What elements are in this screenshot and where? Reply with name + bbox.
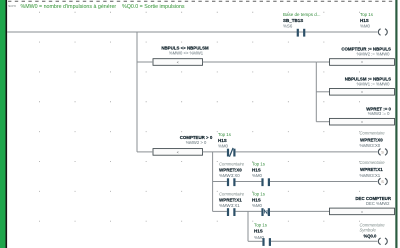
svg-text:=: = <box>361 61 363 65</box>
svg-text:Commentaire: Commentaire <box>360 160 386 165</box>
svg-text:Top 1s: Top 1s <box>360 12 374 17</box>
wire: main rung top rail <box>7 31 377 33</box>
svg-text:WPRET:X1: WPRET:X1 <box>360 167 383 172</box>
wire: rung C to DEC block <box>270 210 330 212</box>
svg-text:H1S: H1S <box>252 197 261 202</box>
wire: sub-branch vertical V3 <box>212 152 214 212</box>
compare block NBPULS <> NBPULSM <box>153 45 209 65</box>
wire: into compare block 2 <box>137 151 153 153</box>
svg-text:%MW0 <> %MW1: %MW0 <> %MW1 <box>169 50 204 55</box>
wire: left branch vertical <box>136 32 138 152</box>
svg-text:%MW2 := %MW0: %MW2 := %MW0 <box>357 52 391 57</box>
svg-text:H1S: H1S <box>254 229 263 234</box>
wire: stub to WPRET := 0 <box>316 121 329 123</box>
svg-text:%M0: %M0 <box>360 24 371 29</box>
svg-text:WPRET:X1: WPRET:X1 <box>219 197 242 202</box>
svg-text:Top 1s: Top 1s <box>254 222 268 227</box>
svg-text:Commentaire: Commentaire <box>219 191 245 196</box>
wire: rung D lead <box>248 240 262 242</box>
svg-text:%MW2 > 0: %MW2 > 0 <box>186 140 207 145</box>
svg-text:=: = <box>361 90 363 94</box>
wire: between contacts rung C <box>235 210 261 212</box>
svg-text:H1S: H1S <box>360 18 369 23</box>
contact SB_TB1S %S6 (base de temps 1s) <box>283 12 321 37</box>
wire: compare1 output to operate branch <box>203 61 317 63</box>
svg-text:<: < <box>177 150 179 154</box>
svg-text:=: = <box>361 210 363 214</box>
falling edge contact H1S %M0 rung C <box>252 191 270 216</box>
wire: into compare block 1 <box>137 61 153 63</box>
set coil WPRET:X1 %MW3:X1 <box>360 160 388 185</box>
svg-text:%MW3:X1: %MW3:X1 <box>360 173 381 178</box>
svg-text:=: = <box>361 120 363 124</box>
svg-text:Commentaire: Commentaire <box>219 162 245 167</box>
svg-text:%MW3:X1: %MW3:X1 <box>219 203 240 208</box>
svg-text:Top 1s: Top 1s <box>218 132 232 137</box>
svg-text:Commentaire: Commentaire <box>360 130 386 135</box>
wire: rung A to set coil <box>235 151 377 153</box>
operate block NBPULSM := NBPULS <box>330 77 395 96</box>
svg-text:%Q0.0: %Q0.0 <box>364 234 377 239</box>
svg-text:%M0: %M0 <box>252 173 263 178</box>
wire: branch vertical V4 <box>247 211 249 241</box>
svg-text:%M0: %M0 <box>252 203 263 208</box>
svg-text:SB_TB1S: SB_TB1S <box>283 18 303 23</box>
negated contact H1S %M0 (Top 1s) rung A <box>218 132 236 157</box>
svg-text:Top 1s: Top 1s <box>252 191 266 196</box>
output coil %Q0.0 (Sortie impulsions) <box>360 222 388 244</box>
svg-text:Base de temps d...: Base de temps d... <box>283 12 321 17</box>
svg-text:som: som <box>8 3 16 8</box>
contact H1S %M0 (Top 1s) rung B <box>252 162 270 187</box>
wire: rung D to output coil <box>271 240 377 242</box>
contact WPRET:X0 %MW3:X0 rung B <box>219 162 245 187</box>
svg-text:%S6: %S6 <box>283 24 293 29</box>
svg-text:%MW3:X0: %MW3:X0 <box>360 143 381 148</box>
grid dots <box>39 12 360 222</box>
right power rail (green) <box>395 0 397 248</box>
svg-text:%MW3 := 0: %MW3 := 0 <box>368 111 390 116</box>
svg-text:WPRET:X0: WPRET:X0 <box>360 137 383 142</box>
set coil WPRET:X0 %MW3:X0 <box>360 130 388 155</box>
operate block DEC COMPTEUR <box>330 196 395 215</box>
svg-text:S: S <box>381 180 384 184</box>
svg-text:H1S: H1S <box>218 138 227 143</box>
svg-text:%MW1 := %MW0: %MW1 := %MW0 <box>357 81 391 86</box>
svg-text:%MW3:X0: %MW3:X0 <box>219 173 240 178</box>
svg-text:<: < <box>177 61 179 65</box>
operate block WPRET := 0 <box>330 106 395 125</box>
wire: stub to COMPTEUR := NBPULS <box>316 61 329 63</box>
coil H1S %M0 (Top 1s) <box>360 12 387 35</box>
svg-text:H1S: H1S <box>252 168 261 173</box>
wire: between contacts rung B <box>235 181 261 183</box>
svg-text:Symbole: Symbole <box>360 228 377 233</box>
wire: stub to NBPULSM := NBPULS <box>316 91 329 93</box>
wire: rung B lead <box>213 181 227 183</box>
svg-text:DEC %MW2: DEC %MW2 <box>366 201 390 206</box>
svg-text:Top 1s: Top 1s <box>252 162 266 167</box>
operate block COMPTEUR := NBPULS <box>330 47 395 66</box>
wire: operate branch vertical <box>315 62 317 122</box>
contact WPRET:X1 %MW3:X1 rung C <box>219 191 245 216</box>
svg-text:WPRET:X0: WPRET:X0 <box>219 168 242 173</box>
compare block COMPTEUR > 0 <box>153 135 213 155</box>
contact H1S %M0 (Top 1s) rung D <box>254 222 271 246</box>
svg-text:S: S <box>381 151 384 155</box>
left margin green bar <box>0 0 6 248</box>
svg-text:%M0: %M0 <box>218 144 229 149</box>
svg-text:%MW0 = nombre d'impulsions à g: %MW0 = nombre d'impulsions à générer <box>21 4 117 10</box>
selection dashed border top <box>8 0 395 2</box>
svg-text:%Q0.0 = Sortie impulsions: %Q0.0 = Sortie impulsions <box>122 4 185 10</box>
wire: compare2 output <box>203 151 227 153</box>
wire: rung C lead <box>213 210 227 212</box>
wire: rung B to set coil <box>270 181 377 183</box>
